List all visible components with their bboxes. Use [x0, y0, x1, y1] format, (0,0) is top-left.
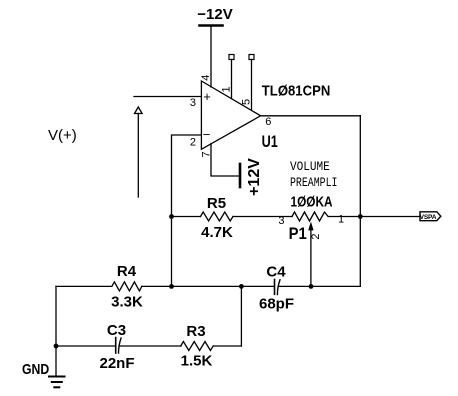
- svg-text:1: 1: [220, 86, 232, 92]
- wire pin 7: [211, 144, 239, 177]
- ground symbol: [49, 377, 65, 388]
- junction R4 row / feedback: [169, 284, 174, 289]
- svg-text:VOLUME: VOLUME: [290, 159, 330, 174]
- wire pin 3 input: [134, 96, 201, 98]
- svg-text:+12V: +12V: [246, 158, 263, 196]
- svg-text:4.7K: 4.7K: [201, 224, 233, 241]
- svg-text:1ØØKA: 1ØØKA: [291, 194, 333, 211]
- svg-text:68pF: 68pF: [259, 296, 294, 313]
- svg-text:1: 1: [338, 214, 344, 226]
- svg-text:−12V: −12V: [197, 6, 232, 23]
- unconnected pin 1 square: [229, 55, 234, 60]
- svg-text:C4: C4: [266, 264, 286, 281]
- svg-text:22nF: 22nF: [99, 355, 134, 372]
- wire feedback node to R5: [172, 216, 201, 218]
- resistor R3: [181, 342, 214, 351]
- svg-text:R5: R5: [207, 195, 226, 212]
- svg-text:PREAMPLI: PREAMPLI: [290, 175, 338, 190]
- wire left riser GND node: [55, 286, 57, 346]
- wire pin 2: [172, 135, 202, 217]
- wire pin 6 output: [261, 115, 361, 117]
- op-amp U1 triangle: [201, 81, 260, 149]
- svg-text:−: −: [203, 127, 211, 142]
- junction wiper/C4 wire: [309, 284, 314, 289]
- svg-text:3.3K: 3.3K: [111, 294, 143, 311]
- svg-text:R3: R3: [186, 323, 205, 340]
- svg-text:C3: C3: [107, 322, 126, 339]
- wire output down to C4 row: [359, 116, 361, 287]
- wire pin 1 to square: [231, 60, 233, 99]
- svg-text:TLØ81CPN: TLØ81CPN: [262, 83, 331, 100]
- wire riser R3 row up to R4 row: [240, 286, 242, 346]
- svg-text:+: +: [203, 89, 211, 104]
- junction feedback/R5: [169, 214, 174, 219]
- capacitor C4: [275, 280, 281, 295]
- svg-text:6: 6: [265, 116, 271, 128]
- junction output/pot: [358, 214, 363, 219]
- power symbol -12V bar: [200, 24, 223, 27]
- wire pin 5 to square: [251, 60, 253, 111]
- svg-text:1.5K: 1.5K: [181, 353, 213, 370]
- svg-text:2: 2: [310, 233, 322, 239]
- wire C4 to output riser: [278, 285, 360, 287]
- wire -12V to pin 4: [210, 27, 212, 88]
- wire GND stub: [55, 346, 57, 376]
- svg-text:5: 5: [240, 99, 252, 105]
- svg-text:3: 3: [278, 215, 284, 227]
- resistor R5: [201, 212, 234, 221]
- svg-text:P1: P1: [289, 224, 307, 243]
- resistor R4: [112, 282, 142, 291]
- capacitor C3: [116, 338, 121, 354]
- wire C4 node to C4: [241, 285, 274, 287]
- wire C3 to R3: [120, 345, 181, 347]
- wire feedback node down to R4 row: [171, 217, 173, 287]
- potentiometer P1: [292, 212, 328, 286]
- wire GND node to C3: [56, 345, 116, 347]
- unconnected pin 5 square: [249, 55, 254, 60]
- svg-text:2: 2: [190, 137, 196, 149]
- power symbol +12V bar: [239, 164, 242, 187]
- svg-text:V(+): V(+): [48, 127, 77, 144]
- wire R3 to riser: [213, 345, 241, 347]
- junction GND node: [54, 344, 59, 349]
- svg-text:VSPA: VSPA: [420, 214, 437, 221]
- net label VSPA: [420, 212, 441, 221]
- svg-text:R4: R4: [117, 263, 137, 280]
- svg-text:3: 3: [190, 97, 196, 109]
- junction R4/R3 riser: [239, 284, 244, 289]
- svg-text:GND: GND: [22, 361, 49, 378]
- wire R5 to pot: [233, 216, 292, 218]
- input arrow annotation: [135, 107, 143, 197]
- wire R4 to C4 node: [142, 285, 242, 287]
- wire R4 row left: [56, 285, 112, 287]
- wire pot pin1 row to VSPA: [328, 216, 420, 218]
- svg-text:U1: U1: [262, 132, 278, 151]
- svg-text:4: 4: [200, 75, 212, 81]
